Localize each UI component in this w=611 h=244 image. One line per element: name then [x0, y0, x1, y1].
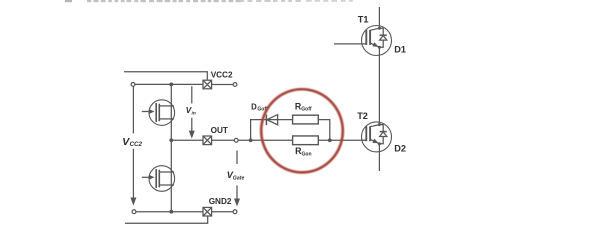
label V_in [186, 106, 196, 116]
svg-text:CC2: CC2 [130, 141, 143, 148]
resistor R_Goff [293, 115, 319, 124]
svg-text:VCC2: VCC2 [211, 70, 233, 79]
node: VCC2 rail / M1 drain junction [169, 83, 173, 87]
wire: R_Gon output to T2 gate [318, 139, 366, 141]
wire: left node riser to turn-off branch [251, 120, 293, 141]
svg-text:in: in [192, 110, 196, 116]
label V_CC2 [122, 136, 142, 148]
measurement arrow V_in [189, 86, 195, 138]
svg-text:GND2: GND2 [209, 197, 232, 206]
wire: OUT continuation to gate resistor network [238, 139, 292, 141]
node A: left node of gate resistor network [249, 138, 253, 142]
svg-text:T2: T2 [357, 111, 368, 121]
cropped text fragments at top edge [65, 0, 353, 2]
wire: GND2 rail right segment [212, 211, 234, 213]
wire: VCC2 top bypass wire [124, 72, 207, 80]
wire: R_Goff to right node riser [318, 120, 330, 141]
svg-text:Goff: Goff [301, 107, 312, 113]
wire: M2 column OUT rail to GND2 rail [170, 140, 172, 211]
open terminal circle (GND2 rail left end) [132, 210, 136, 214]
wire: T1 gate lead [334, 43, 366, 45]
transistor T1 (IGBT) [362, 26, 392, 56]
wire: VCC2 rail right segment [212, 84, 234, 86]
node: GND2 rail / M2 source junction [169, 210, 173, 214]
svg-text:Gon: Gon [302, 151, 312, 157]
wire: OUT rail to connector circle [212, 139, 235, 141]
open terminal circle (GND2 right end) [233, 210, 237, 214]
label R_Gon [295, 146, 311, 157]
node B: right node of gate resistor network [328, 138, 332, 142]
terminal OUT (crossed box) [203, 136, 212, 145]
svg-text:D: D [251, 102, 257, 111]
node: OUT rail / M1-M2 junction [169, 138, 173, 142]
wire: VCC2 rail left segment [135, 83, 203, 85]
svg-text:OUT: OUT [211, 126, 228, 135]
wire: T1 emitter to T2 collector [378, 47, 380, 124]
terminal VCC2 (crossed box) [203, 80, 212, 89]
label V_Gate [227, 170, 245, 181]
red highlight ellipse [259, 87, 345, 174]
transistor M2 (driver bottom MOSFET) [142, 166, 175, 192]
svg-text:T1: T1 [358, 14, 369, 24]
label D_Goff [251, 102, 268, 112]
wire: T2 emitter lead [378, 144, 380, 171]
open terminal circle (VCC2 rail right end) [233, 83, 237, 87]
terminal GND2 (crossed box) [203, 207, 212, 216]
wire: GND2 bottom bypass wire [125, 216, 208, 223]
open terminal circle (VCC2 rail left end) [131, 83, 135, 87]
open terminal circle (OUT) [234, 138, 238, 142]
wire: T2 gate lead [365, 139, 367, 141]
resistor R_Gon [293, 136, 319, 145]
measurement arrow V_Gate (dashed) [234, 151, 240, 207]
wire: OUT rail left segment [171, 139, 203, 141]
measurement arrow V_CC2 [130, 87, 136, 206]
svg-text:Gate: Gate [233, 176, 245, 182]
svg-text:D1: D1 [394, 45, 406, 55]
transistor T2 (IGBT) [362, 122, 392, 152]
wire: M1 drain to VCC2 rail and source to OUT rail (transistor column) [170, 84, 172, 140]
wire: T1 collector lead [378, 7, 380, 28]
diode D_Goff [266, 115, 277, 126]
svg-text:D2: D2 [394, 143, 406, 153]
label R_Goff [295, 102, 312, 113]
transistor M1 (driver top MOSFET) [142, 100, 175, 126]
wire: GND2 rail left segment [136, 211, 203, 213]
